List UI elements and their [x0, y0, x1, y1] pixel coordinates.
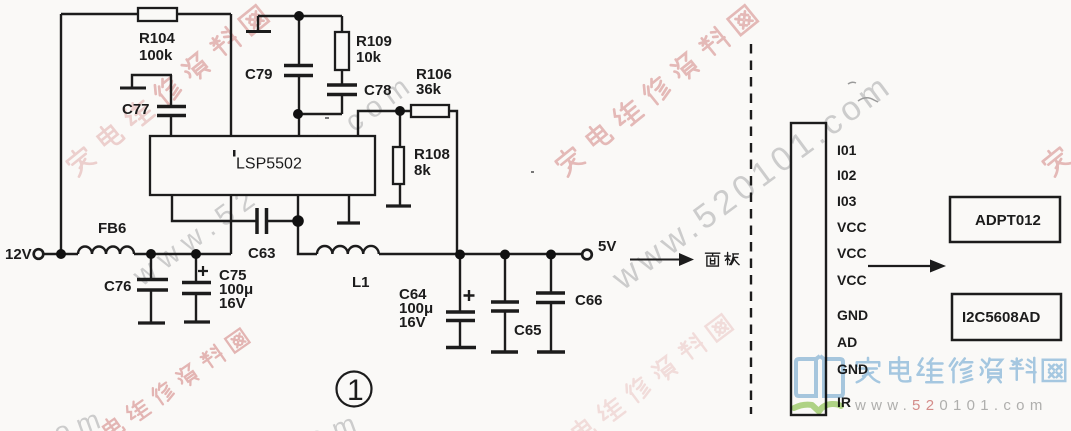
svg-text:C77: C77: [122, 101, 150, 118]
terminal 5V: [582, 250, 592, 260]
node C63 out: [292, 215, 304, 227]
arrow VCC to ADPT012: [868, 265, 930, 267]
node 5V rail c: [546, 250, 556, 260]
svg-text:GND: GND: [837, 307, 868, 323]
svg-text:C76: C76: [104, 278, 132, 295]
node 12V rail b: [146, 249, 156, 259]
connector J1 box: [791, 123, 826, 415]
circled figure number 1: [337, 372, 372, 407]
wire C63 right to node: [267, 220, 298, 222]
svg-text:16V: 16V: [219, 295, 246, 312]
ground G4 below R108: [386, 204, 411, 207]
dashed separator line: [750, 44, 752, 414]
terminal 12V: [34, 249, 44, 259]
capacitor C66 leads: [550, 254, 552, 351]
svg-text:1: 1: [347, 374, 364, 407]
wire L1 to 5V: [379, 253, 582, 255]
wire IC pin2 to 12V rail: [230, 195, 232, 254]
pink watermark line center: [553, 3, 759, 176]
svg-text:VCC: VCC: [837, 219, 867, 235]
inductor FB6: [78, 247, 134, 254]
box ADPT012: [950, 197, 1060, 242]
svg-text:I02: I02: [837, 167, 857, 183]
resistor R108: [393, 147, 404, 184]
svg-text:www.520101.com: www.520101.com: [854, 397, 1048, 414]
svg-text:C66: C66: [575, 292, 603, 309]
svg-text:I01: I01: [837, 142, 857, 158]
svg-text:I03: I03: [837, 193, 857, 209]
C75 plus sign: [198, 266, 208, 276]
gray watermark www.520101.com left-center: [126, 66, 421, 293]
svg-text:10k: 10k: [356, 49, 382, 66]
capacitor C75 plates (electrolytic): [182, 283, 211, 294]
capacitor C65 plates: [491, 302, 519, 311]
node C79/C78 bottom: [293, 109, 303, 119]
capacitor C64 leads: [459, 254, 461, 346]
connector pin labels: [837, 142, 868, 410]
svg-text:36k: 36k: [416, 81, 442, 98]
capacitor C64 plates (electrolytic): [446, 312, 475, 321]
scan specks: [848, 82, 878, 102]
svg-text:5V: 5V: [598, 238, 616, 255]
wire R106 terminals: [400, 111, 457, 253]
wire FB node to IC: [358, 111, 400, 136]
svg-text:L1: L1: [352, 274, 370, 291]
gray watermark partial bottom-left: [49, 401, 111, 431]
arrow to panel: [630, 259, 679, 261]
svg-text:C63: C63: [248, 245, 276, 262]
svg-text:C78: C78: [364, 82, 392, 99]
wire C77 branch: [170, 75, 172, 136]
svg-text:AD: AD: [837, 334, 857, 350]
wire IC pin3 to C63 node: [297, 195, 299, 221]
op-amp/IC U1 LSP5502 box: [150, 136, 375, 195]
ground G2 hook of C77: [132, 75, 172, 87]
ground G3: [337, 221, 360, 224]
wire left rail: [60, 14, 62, 254]
pink watermark line upper-left: [64, 3, 270, 176]
capacitor C76 plates: [137, 280, 168, 291]
wire R109 branch: [299, 16, 342, 114]
svg-text:ADPT012: ADPT012: [975, 212, 1041, 229]
svg-text:VCC: VCC: [837, 272, 867, 288]
capacitor C75 leads: [195, 254, 197, 321]
svg-text:R108: R108: [414, 146, 450, 163]
svg-text:LSP5502: LSP5502: [236, 156, 302, 173]
svg-text:FB6: FB6: [98, 220, 126, 237]
svg-text:12V: 12V: [5, 246, 32, 263]
C64 plus sign: [464, 290, 475, 301]
logo green swoosh: [794, 404, 841, 412]
capacitor C63 plates: [257, 208, 267, 234]
svg-text:8k: 8k: [414, 162, 431, 179]
capacitor C66 plates: [536, 293, 565, 303]
node 12V rail a: [56, 249, 66, 259]
capacitor C65 leads: [504, 254, 506, 351]
svg-text:R104: R104: [139, 30, 176, 47]
wire IC pin1 to C63: [172, 195, 256, 221]
resistor R106: [411, 105, 449, 117]
wire R108 branch: [399, 111, 401, 205]
svg-text:100k: 100k: [139, 47, 173, 64]
svg-text:C79: C79: [245, 66, 273, 83]
svg-text:C65: C65: [514, 322, 542, 339]
wire C79 top: [258, 15, 342, 17]
wire IC pin4 ground: [348, 195, 350, 222]
gray watermark partial bottom-center: [303, 404, 369, 431]
wire node down to L1: [298, 221, 317, 254]
node 12V rail c: [191, 249, 201, 259]
label panel (mian ban): [705, 252, 739, 266]
blue watermark text bottom right: [857, 357, 1066, 382]
capacitor C79 plates: [284, 66, 313, 76]
svg-text:R109: R109: [356, 33, 392, 50]
wire C79 branch: [298, 16, 300, 136]
pink watermark line bottom-center faint: [540, 312, 733, 431]
box I2C5608AD: [952, 294, 1061, 340]
capacitor C77 plates: [157, 107, 186, 116]
wire 12V rail: [43, 253, 231, 255]
node 5V rail a: [455, 250, 465, 260]
capacitor C76 leads: [150, 254, 152, 322]
resistor R109: [335, 32, 349, 70]
resistor R104: [138, 8, 177, 21]
node FB: [395, 106, 405, 116]
wire R104 to IC pin: [230, 14, 232, 136]
capacitor C78 plates: [327, 85, 357, 95]
wire top rail: [61, 13, 231, 15]
node 5V rail b: [500, 250, 510, 260]
inductor L1: [317, 246, 379, 254]
pink watermark line bottom-left: [74, 327, 250, 431]
pink watermark partial right edge: [1040, 120, 1071, 176]
svg-text:16V: 16V: [399, 314, 426, 331]
logo book icon blue: [796, 356, 843, 396]
svg-text:I2C5608AD: I2C5608AD: [962, 309, 1041, 326]
ground G1: [257, 16, 259, 31]
svg-text:VCC: VCC: [837, 245, 867, 261]
gray watermark www.520101.com right of dashed line: [604, 66, 899, 298]
node top C79: [294, 11, 304, 21]
